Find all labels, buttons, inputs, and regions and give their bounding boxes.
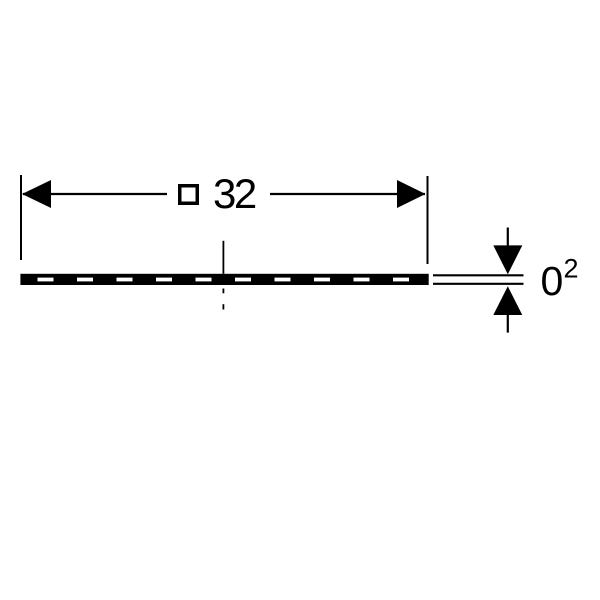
svg-text:32: 32 [213,170,256,217]
svg-text:2: 2 [564,254,579,284]
svg-text:0: 0 [541,258,564,304]
